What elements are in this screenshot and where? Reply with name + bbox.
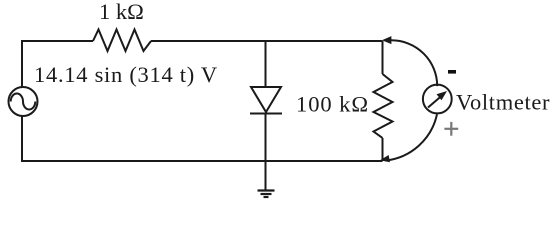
wire middle branch lower (diode to ground) <box>265 114 267 191</box>
resistor R1 1 kOhm zigzag <box>93 30 151 52</box>
wire right branch upper <box>382 41 384 74</box>
svg-text:1 kΩ: 1 kΩ <box>99 0 144 24</box>
resistor R2 100 kOhm zigzag <box>374 74 393 138</box>
diode D1 cathode bar <box>250 113 282 115</box>
wire bottom horizontal <box>21 160 383 162</box>
wire left vertical lower <box>21 116 23 162</box>
svg-text:14.14 sin (314 t) V: 14.14 sin (314 t) V <box>34 62 218 87</box>
diode D1 triangle <box>251 87 281 112</box>
voltmeter M1 circle <box>423 85 452 114</box>
AC source sine wave <box>11 94 36 110</box>
svg-text:100 kΩ: 100 kΩ <box>296 92 369 117</box>
AC source V1 circle <box>9 87 38 116</box>
wire right branch lower <box>382 138 384 161</box>
wire top-left horizontal (source to resistor R1) <box>22 40 93 42</box>
wire left vertical upper <box>21 40 23 87</box>
minus polarity mark <box>448 70 456 74</box>
voltmeter needle arrowhead <box>437 91 448 100</box>
plus polarity mark <box>444 122 458 136</box>
voltmeter needle <box>428 97 440 107</box>
wire top horizontal (resistor to right junction) <box>151 40 383 42</box>
arrowhead at bottom node <box>381 156 389 162</box>
arrowhead at top node <box>383 37 391 44</box>
ground symbol <box>258 191 275 198</box>
voltmeter lead arc bottom <box>386 114 438 160</box>
svg-text:Voltmeter: Voltmeter <box>456 90 550 115</box>
voltmeter lead arc top <box>391 40 437 86</box>
wire middle branch upper (node to diode) <box>265 41 267 87</box>
